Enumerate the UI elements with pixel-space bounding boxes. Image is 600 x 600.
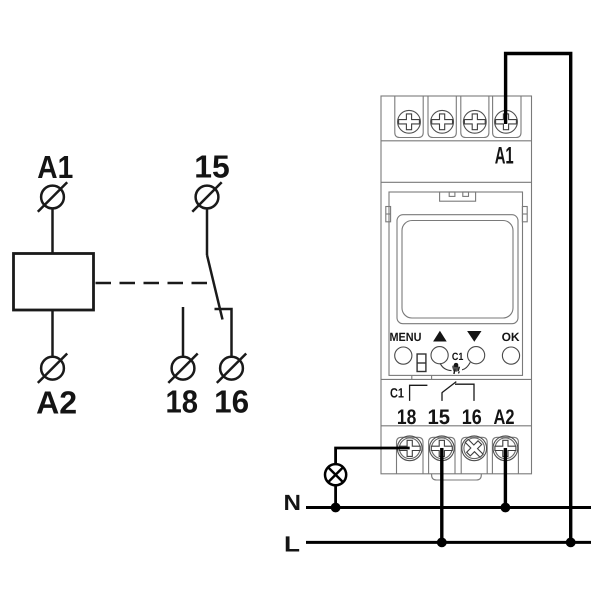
section line (381, 378, 532, 380)
junction supply L (566, 538, 576, 548)
wire (206, 208, 209, 255)
switch lever contact 15-16 (207, 255, 223, 320)
section line (381, 181, 532, 183)
svg-text:C1: C1 (390, 386, 404, 401)
wire lamp to terminal 18 (336, 448, 410, 464)
junction lamp N (331, 503, 341, 513)
screw terminal bottom A2 (492, 436, 518, 474)
wire (182, 307, 185, 357)
terminal 18 (168, 354, 197, 383)
press-together curve left (440, 363, 451, 370)
svg-text:MENU: MENU (390, 330, 422, 344)
panel side clip right (522, 207, 527, 222)
relay coil K1 (14, 254, 94, 311)
wire (51, 310, 54, 357)
wire A1 supply from top (506, 54, 571, 543)
device bottom tab (432, 474, 482, 480)
screw terminal bottom 16 (461, 435, 487, 474)
supply line N (306, 506, 591, 509)
wire lamp to N (334, 485, 337, 507)
button down arrow (467, 331, 481, 342)
button MENU (395, 347, 412, 364)
svg-text:16: 16 (462, 406, 482, 429)
svg-text:OK: OK (502, 330, 520, 344)
junction 15 L (437, 538, 447, 548)
svg-text:15: 15 (194, 149, 230, 185)
contact diagram lever (442, 382, 456, 393)
screw terminal bottom 18 (397, 436, 424, 474)
panel side clip left (386, 207, 391, 222)
screw terminal top 2 (428, 96, 456, 138)
wire terminal A2 to N (504, 448, 507, 508)
front panel (389, 192, 523, 375)
svg-text:L: L (284, 532, 300, 557)
svg-text:N: N (284, 490, 302, 515)
LCD display frame (397, 215, 518, 324)
terminal 16 (217, 354, 246, 383)
supply line L (306, 541, 591, 544)
panel top tab (440, 192, 476, 201)
timer device body (381, 96, 532, 474)
screw terminal top 3 (461, 96, 489, 138)
contact diagram bracket (410, 385, 428, 401)
screw terminal top 4 A1 (493, 96, 521, 138)
svg-text:A1: A1 (495, 142, 514, 169)
contact diagram 16 bar (455, 384, 474, 401)
wire terminal 15 to L (440, 448, 443, 542)
svg-text:18: 18 (165, 384, 198, 420)
svg-text:18: 18 (397, 406, 417, 429)
screw terminal bottom 15 (429, 436, 455, 474)
terminal A2 (38, 354, 67, 383)
mode slider (417, 354, 426, 372)
panel bottom tab (411, 375, 413, 379)
button up (431, 347, 448, 364)
svg-text:15: 15 (428, 406, 451, 429)
junction A2 N (501, 503, 511, 513)
svg-text:16: 16 (214, 384, 249, 420)
button down (468, 347, 485, 364)
button OK (502, 347, 519, 364)
lamp E1 (325, 464, 346, 485)
terminal A1 (38, 182, 67, 211)
wire (51, 208, 54, 254)
terminal 15 (192, 182, 221, 211)
svg-text:C1: C1 (452, 351, 464, 363)
button up arrow (433, 331, 447, 342)
screw terminal top 1 (395, 96, 423, 138)
press-together curve right (462, 362, 470, 370)
section line (381, 140, 532, 142)
mechanical link dashed (96, 282, 212, 285)
svg-text:A2: A2 (36, 385, 77, 421)
wire (215, 309, 232, 357)
svg-text:A2: A2 (494, 406, 515, 429)
contact diagram 15 stub (441, 392, 443, 401)
hand icon (452, 363, 460, 374)
svg-text:A1: A1 (37, 149, 73, 185)
section line (381, 425, 532, 427)
LCD display screen (402, 221, 513, 319)
